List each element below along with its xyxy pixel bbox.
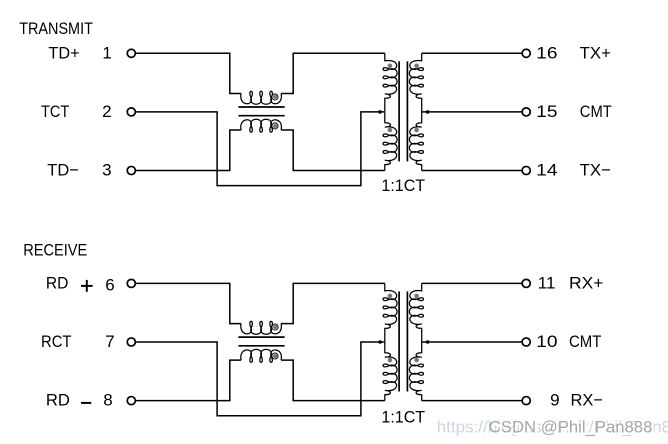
svg-text:8: 8 — [103, 391, 112, 410]
choke T1 bottom winding phase dot — [273, 124, 277, 128]
wire transformer X2 secondary top to pin 11 — [422, 282, 522, 284]
wire pin 7 (RCT) to transformer X2 primary center tap — [136, 342, 385, 416]
svg-text:2: 2 — [102, 102, 111, 121]
wire transformer X1 secondary top to pin 16 — [422, 52, 522, 54]
pin 16 terminal — [522, 49, 530, 57]
transformer X2 core line 2 — [406, 291, 408, 391]
choke T2 top winding phase dot — [273, 325, 277, 329]
net label RD minus sign — [81, 402, 91, 404]
wire transformer X2 secondary center tap to pin 10 (CMT) — [422, 341, 522, 343]
svg-text:15: 15 — [536, 102, 557, 121]
svg-text:9: 9 — [550, 391, 559, 410]
svg-text:CMT: CMT — [580, 102, 612, 121]
svg-text:RD: RD — [46, 273, 69, 292]
wire choke T2 top winding to transformer X2 primary top — [281, 283, 385, 323]
choke T2 top winding end curl — [272, 324, 278, 330]
svg-text:RD: RD — [46, 391, 70, 410]
choke T1 top winding end curl — [272, 94, 278, 100]
svg-text:CMT: CMT — [569, 332, 601, 351]
transformer X1 secondary upper winding phase dot — [414, 64, 419, 69]
junction node: X2 primary center tap — [378, 340, 382, 344]
transformer X1 secondary upper winding — [409, 53, 423, 112]
svg-text:RX+: RX+ — [569, 273, 604, 292]
choke T1 top winding phase dot — [273, 95, 277, 99]
transformer X2 secondary lower winding phase dot — [414, 358, 419, 363]
wire choke T2 bottom winding to transformer X2 primary bottom — [281, 360, 385, 401]
choke T2 core line 2 — [238, 345, 284, 347]
choke T1 top winding coil — [241, 91, 282, 104]
choke T1 core line 2 — [238, 115, 284, 117]
svg-text:16: 16 — [536, 43, 557, 62]
pin 8 terminal — [127, 397, 135, 405]
choke T2 top winding coil — [241, 321, 282, 334]
transformer X1 primary upper winding — [383, 53, 397, 112]
transformer X2 secondary upper winding phase dot — [414, 294, 419, 299]
wire pin 1 to choke T1 top winding — [136, 53, 241, 93]
wire transformer X2 secondary bottom to pin 9 — [422, 400, 522, 402]
choke T2 bottom winding coil — [241, 349, 282, 362]
transformer X2 primary lower winding — [383, 342, 397, 401]
pin 6 terminal — [127, 279, 135, 287]
svg-text:7: 7 — [105, 332, 114, 351]
transformer X1 secondary lower winding phase dot — [414, 128, 419, 133]
transformer X2 primary upper winding phase dot — [388, 294, 393, 299]
net label RD plus sign — [81, 280, 93, 292]
pin 1 terminal — [127, 49, 135, 57]
junction node: X1 primary center tap — [378, 110, 382, 114]
svg-text:RCT: RCT — [41, 332, 72, 351]
choke T1 bottom winding coil — [241, 119, 282, 132]
wire transformer X1 secondary bottom to pin 14 — [422, 170, 522, 172]
choke T2 core line 1 — [238, 336, 284, 338]
wire choke T1 bottom winding to transformer X1 primary bottom — [281, 130, 385, 171]
pin 10 terminal — [522, 338, 530, 346]
pin 11 terminal — [522, 279, 530, 287]
junction node: X2 secondary center tap — [426, 340, 430, 344]
transformer X2 primary lower winding phase dot — [388, 358, 393, 363]
wire pin 3 to choke T1 bottom winding — [136, 130, 241, 171]
pin 9 terminal — [522, 397, 530, 405]
transformer X1 core line 1 — [398, 61, 400, 161]
pin 3 terminal — [127, 166, 135, 174]
choke T2 bottom winding end curl — [272, 353, 278, 359]
svg-text:TD+: TD+ — [48, 43, 79, 62]
svg-text:14: 14 — [536, 161, 557, 180]
wire pin 8 to choke T2 bottom winding — [136, 360, 241, 401]
svg-text:TCT: TCT — [41, 102, 69, 121]
pin 14 terminal — [522, 166, 530, 174]
svg-text:1:1CT: 1:1CT — [381, 408, 425, 427]
svg-text:TX+: TX+ — [580, 43, 611, 62]
transformer X1 secondary lower winding — [409, 112, 423, 171]
choke T2 bottom winding phase dot — [273, 354, 277, 358]
svg-text:TX−: TX− — [580, 161, 611, 180]
svg-text:1: 1 — [102, 43, 111, 62]
svg-text:TRANSMIT: TRANSMIT — [19, 19, 93, 38]
pin 15 terminal — [522, 108, 530, 116]
svg-text:1:1CT: 1:1CT — [381, 176, 425, 195]
wire choke T1 top winding to transformer X1 primary top — [281, 53, 385, 93]
choke T1 core line 1 — [238, 106, 284, 108]
transformer X1 primary lower winding — [383, 112, 397, 171]
transformer X1 primary upper winding phase dot — [388, 64, 393, 69]
svg-text:TD−: TD− — [47, 161, 79, 180]
transformer X1 core line 2 — [406, 61, 408, 161]
wire pin 2 (TCT) to transformer X1 primary center tap — [136, 112, 385, 186]
pin 2 terminal — [127, 108, 135, 116]
svg-text:10: 10 — [536, 332, 557, 351]
transformer X2 primary upper winding — [383, 283, 397, 342]
svg-text:3: 3 — [102, 161, 111, 180]
wire pin 6 to choke T2 top winding — [136, 283, 241, 323]
transformer X2 secondary lower winding — [409, 342, 423, 401]
pin 7 terminal — [127, 338, 135, 346]
transformer X2 core line 1 — [398, 291, 400, 391]
svg-text:RX−: RX− — [571, 391, 604, 410]
svg-text:CSDN @Phil_Pan888: CSDN @Phil_Pan888 — [489, 418, 653, 437]
wire transformer X1 secondary center tap to pin 15 (CMT) — [422, 111, 522, 113]
svg-text:RECEIVE: RECEIVE — [23, 241, 87, 260]
svg-text:6: 6 — [105, 276, 114, 295]
transformer X2 secondary upper winding — [409, 283, 423, 342]
choke T1 bottom winding end curl — [272, 123, 278, 129]
transformer X1 primary lower winding phase dot — [388, 128, 393, 133]
svg-text:11: 11 — [538, 273, 556, 292]
junction node: X1 secondary center tap — [426, 110, 430, 114]
